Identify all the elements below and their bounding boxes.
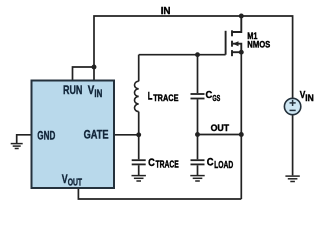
svg-text:V: V — [88, 83, 95, 97]
wire C_LOAD branch — [197, 135, 199, 160]
wire C_LOAD to ground — [197, 165, 199, 175]
svg-text:LOAD: LOAD — [214, 160, 233, 171]
node OUT right — [239, 132, 244, 137]
svg-text:GND: GND — [37, 128, 55, 142]
node RUN/VIN tie — [92, 65, 97, 70]
wire gate net vertical upper — [138, 55, 140, 82]
wire OUT net — [198, 134, 242, 136]
svg-text:C: C — [148, 157, 155, 169]
transistor M1 NMOS — [226, 16, 242, 56]
wire gate net vertical lower — [138, 112, 140, 160]
ground (C_LOAD) — [190, 176, 204, 181]
svg-text:OUT: OUT — [211, 123, 230, 133]
svg-text:RUN: RUN — [63, 83, 82, 97]
svg-text:C: C — [207, 157, 214, 169]
svg-text:OUT: OUT — [68, 177, 83, 189]
ground (left GND) — [11, 144, 23, 149]
node GATE / L-C junction — [136, 132, 141, 137]
svg-text:IN: IN — [161, 6, 171, 17]
svg-text:TRACE: TRACE — [153, 93, 178, 103]
wire C_TRACE to ground — [138, 165, 140, 175]
wire C_GS branch — [197, 55, 199, 93]
wire gate net horizontal — [139, 54, 226, 56]
voltage source V_IN — [284, 98, 300, 114]
svg-text:NMOS: NMOS — [247, 39, 270, 50]
svg-text:GS: GS — [212, 93, 220, 103]
ground (C_TRACE) — [132, 176, 146, 181]
node CGS tap on gate net — [195, 52, 200, 57]
wire RUN tie — [73, 67, 95, 80]
capacitor C_GS — [191, 94, 205, 99]
IC U1 block — [32, 81, 115, 189]
capacitor C_LOAD — [191, 160, 205, 164]
wire bottom return to VOUT — [78, 189, 241, 200]
node junction dots — [92, 14, 244, 138]
svg-text:IN: IN — [305, 93, 314, 103]
M1 body arrow — [233, 41, 239, 46]
inductor L_TRACE — [134, 81, 138, 111]
svg-text:GATE: GATE — [84, 128, 109, 142]
capacitor C_TRACE — [132, 160, 146, 164]
wire GATE pin — [115, 134, 139, 136]
node OUT left — [195, 132, 200, 137]
svg-text:IN: IN — [94, 88, 102, 100]
svg-text:C: C — [206, 90, 213, 101]
svg-text:TRACE: TRACE — [156, 160, 180, 171]
wire top rail IN — [94, 16, 293, 98]
svg-text:L: L — [148, 91, 153, 103]
node source/body tie — [239, 50, 244, 55]
wire GND pin — [17, 135, 31, 143]
wire VIN source lower — [292, 115, 294, 176]
node drain on IN rail — [239, 14, 244, 19]
ground (V_IN source) — [285, 176, 299, 181]
wire C_GS to OUT — [197, 99, 199, 134]
wire M1 source to OUT to bottom — [240, 52, 242, 199]
